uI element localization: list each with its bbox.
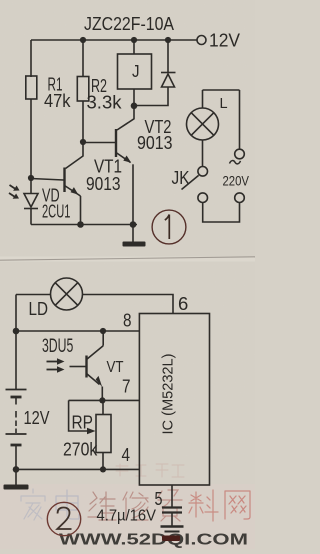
svg-text:8: 8 — [123, 310, 132, 331]
svg-text:9013: 9013 — [86, 174, 121, 194]
svg-text:9013: 9013 — [137, 133, 173, 153]
svg-text:3DU5: 3DU5 — [42, 336, 73, 357]
svg-text:3.3k: 3.3k — [87, 93, 123, 113]
svg-text:JK: JK — [172, 168, 190, 188]
svg-text:12V: 12V — [24, 408, 50, 428]
svg-text:7: 7 — [122, 376, 131, 397]
svg-text:12V: 12V — [209, 30, 241, 51]
svg-text:220V: 220V — [223, 173, 250, 189]
svg-text:2CU1: 2CU1 — [42, 202, 70, 222]
svg-text:6: 6 — [178, 293, 188, 314]
svg-text:4.7µ/16V: 4.7µ/16V — [97, 508, 157, 525]
svg-text:WWW.52DQI.COM: WWW.52DQI.COM — [59, 532, 248, 549]
svg-text:VT: VT — [107, 359, 124, 376]
svg-text:47k: 47k — [44, 91, 71, 111]
svg-text:L: L — [220, 96, 228, 112]
svg-text:LD: LD — [29, 299, 49, 319]
svg-text:4: 4 — [122, 444, 131, 465]
svg-text:JZC22F-10A: JZC22F-10A — [84, 13, 175, 34]
svg-text:J: J — [132, 61, 140, 81]
svg-text:IC (M5232L): IC (M5232L) — [160, 354, 177, 435]
svg-text:270k: 270k — [63, 440, 98, 460]
svg-text:5: 5 — [155, 489, 163, 509]
svg-text:RP: RP — [72, 413, 94, 433]
